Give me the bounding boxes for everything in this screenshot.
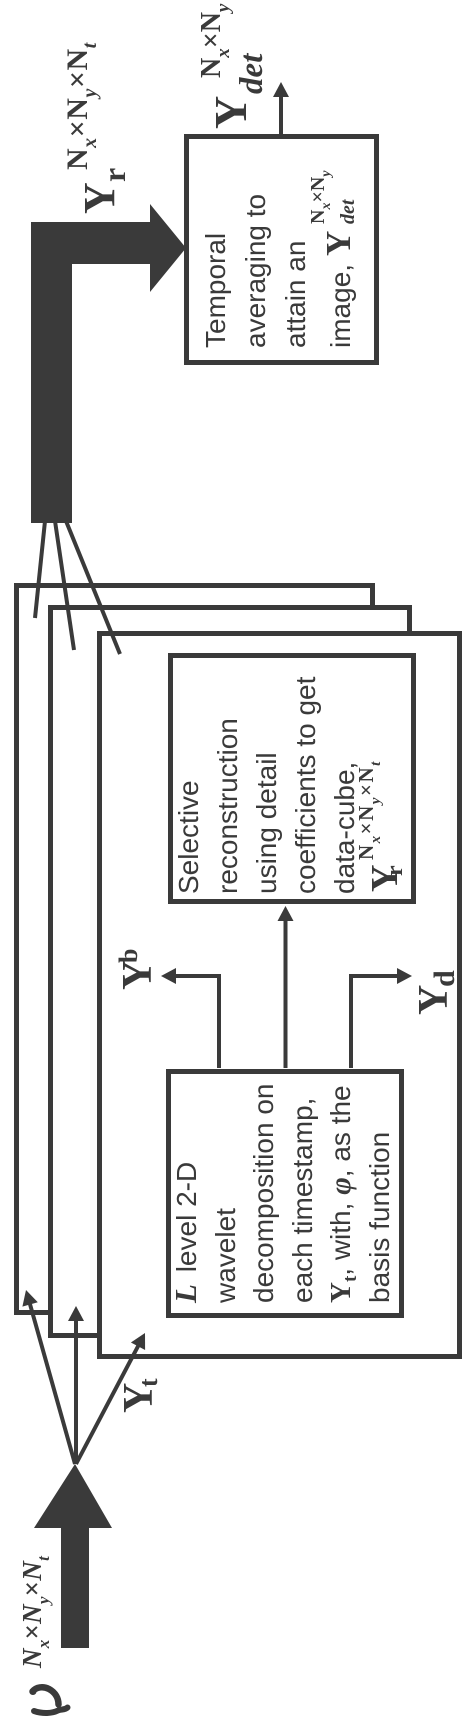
svg-text:r: r: [382, 865, 408, 876]
svg-text:Y: Y: [115, 960, 161, 990]
svg-text:Y: Y: [319, 231, 358, 256]
svg-text:Yt, with, φ, as the: Yt, with, φ, as the: [324, 1085, 361, 1303]
svg-text:reconstruction: reconstruction: [212, 718, 243, 894]
svg-text:Y: Y: [75, 182, 124, 214]
svg-text:r: r: [96, 168, 132, 182]
svg-text:Selective: Selective: [173, 780, 204, 894]
svg-text:det: det: [337, 198, 359, 224]
svg-text:averaging to: averaging to: [240, 194, 271, 348]
svg-text:each timestamp,: each timestamp,: [287, 1098, 318, 1303]
svg-text:Y: Y: [411, 985, 457, 1015]
svg-text:det: det: [234, 53, 270, 94]
svg-text:Temporal: Temporal: [200, 233, 231, 348]
svg-text:b: b: [114, 949, 143, 963]
svg-text:image,: image,: [325, 264, 356, 348]
svg-text:coefficients to get: coefficients to get: [290, 676, 321, 894]
svg-text:t: t: [134, 1378, 163, 1387]
svg-text:using detail: using detail: [251, 752, 282, 894]
svg-text:decomposition on: decomposition on: [248, 1084, 279, 1303]
svg-text:attain an: attain an: [280, 241, 311, 348]
svg-text:basis function: basis function: [364, 1132, 395, 1303]
svg-text:wavelet: wavelet: [210, 1208, 241, 1304]
svg-text:Y: Y: [205, 96, 256, 129]
svg-text:d: d: [428, 970, 461, 987]
